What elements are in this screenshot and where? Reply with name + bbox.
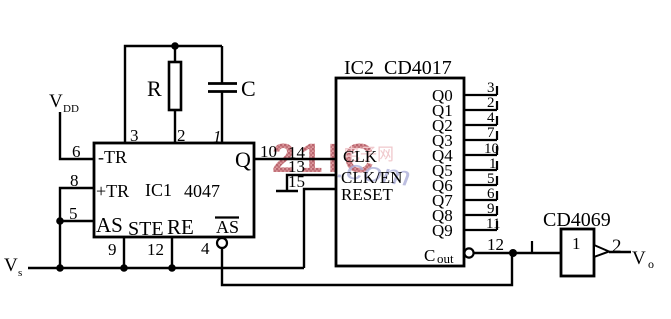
power VDD label: [49, 91, 79, 115]
IC2 output Q7 pin 6: [432, 186, 497, 210]
IC2 internal labels left: [341, 147, 402, 204]
svg-text:4: 4: [201, 239, 210, 258]
svg-text:+TR: +TR: [96, 181, 129, 201]
node pin5 junction: [56, 217, 64, 225]
svg-text:4: 4: [487, 110, 495, 126]
node junction on top wire: [171, 42, 179, 50]
capacitor C: [208, 46, 256, 143]
IC2 output Q4 pin 10: [432, 141, 499, 165]
svg-text:RE: RE: [167, 215, 194, 239]
pin 4 bubble: [217, 238, 227, 248]
svg-text:7: 7: [487, 125, 495, 141]
wire VDD vertical to pin 6: [60, 112, 94, 159]
svg-text:2: 2: [177, 126, 186, 145]
IC1 internal labels: [96, 147, 251, 240]
svg-text:STE: STE: [128, 218, 164, 240]
wire top net: pin3 up, across to cap: [125, 46, 222, 143]
pin 8 stub: [60, 188, 94, 221]
svg-text:12: 12: [487, 235, 504, 254]
svg-text:C: C: [424, 246, 435, 265]
svg-text:1: 1: [489, 156, 497, 172]
IC CD4069 inverter box: [561, 229, 594, 276]
wire CLK/EN stub with end bar: [276, 157, 336, 191]
pin 5 stub: [60, 220, 94, 222]
wire Cout to inverter input: [474, 252, 561, 254]
svg-text:CD4069: CD4069: [543, 209, 611, 231]
IC2 output Q1 pin 2: [432, 95, 497, 120]
wire Q to CLK: [254, 158, 336, 160]
svg-text:AS: AS: [96, 213, 123, 237]
svg-text:8: 8: [70, 171, 79, 190]
node Cout junction: [509, 249, 517, 257]
IC2 output Q0 pin 3: [432, 80, 497, 105]
node Vs-pin12: [168, 264, 176, 272]
svg-text:10: 10: [484, 141, 499, 157]
input Vs label: [4, 255, 22, 279]
svg-text:9: 9: [487, 201, 495, 217]
svg-text:V: V: [4, 255, 18, 276]
svg-text:V: V: [632, 248, 646, 269]
node Vs-pin9: [120, 264, 128, 272]
svg-text:out: out: [437, 251, 454, 266]
pin 12 wire: [171, 237, 173, 268]
Cout bubble: [464, 248, 473, 257]
IC2 output Q8 pin 9: [432, 201, 497, 225]
wire Vs rail: [28, 267, 304, 269]
svg-text:12: 12: [147, 240, 164, 259]
svg-text:Q9: Q9: [432, 221, 453, 240]
svg-text:6: 6: [487, 186, 495, 202]
wire pin4 feedback to Cout junction: [222, 248, 512, 285]
svg-text:s: s: [18, 267, 22, 279]
svg-text:DD: DD: [63, 103, 79, 115]
svg-text:AS: AS: [216, 217, 239, 237]
svg-text:IC2 CD4017: IC2 CD4017: [344, 57, 452, 79]
wire from pin5 node down to Vs rail: [59, 221, 61, 268]
IC IC1 4047 box: [94, 143, 254, 237]
svg-text:1: 1: [572, 234, 581, 253]
svg-text:11: 11: [486, 216, 500, 232]
IC2 output Q9 pin 11: [432, 216, 500, 240]
inverter output triangle: [594, 245, 609, 257]
IC2 output Q3 pin 7: [432, 125, 497, 150]
svg-text:5: 5: [69, 204, 78, 223]
resistor R: [147, 46, 181, 143]
svg-text:Q: Q: [235, 147, 251, 172]
svg-text:V: V: [49, 91, 63, 112]
IC IC2 CD4017 box: [336, 78, 464, 266]
svg-text:1: 1: [213, 127, 222, 146]
pin 9 wire: [123, 237, 125, 268]
svg-text:2: 2: [612, 236, 622, 257]
inverter input tick: [531, 241, 533, 253]
node Vs-VDD branch: [56, 264, 64, 272]
IC2 output Q5 pin 1: [432, 156, 497, 180]
svg-text:C: C: [241, 76, 256, 101]
svg-text:6: 6: [72, 142, 81, 161]
svg-text:3: 3: [130, 126, 139, 145]
svg-text:9: 9: [108, 240, 117, 259]
svg-text:2: 2: [487, 95, 495, 111]
wire inverter output: [609, 251, 631, 253]
IC2 output Q2 pin 4: [432, 110, 497, 135]
svg-text:3: 3: [487, 80, 495, 96]
svg-text:-TR: -TR: [98, 147, 127, 167]
svg-text:5: 5: [487, 171, 495, 187]
wire Vs rail up to RESET: [304, 189, 336, 268]
IC1 pin labels top: [130, 126, 222, 146]
svg-text:o: o: [648, 257, 654, 271]
IC2 Cout label: [424, 246, 454, 266]
svg-text:R: R: [147, 76, 162, 101]
IC2 output Q6 pin 5: [432, 171, 497, 195]
svg-text:IC1: IC1: [145, 180, 172, 200]
output Vo label: [632, 248, 654, 271]
svg-text:4047: 4047: [184, 181, 220, 201]
